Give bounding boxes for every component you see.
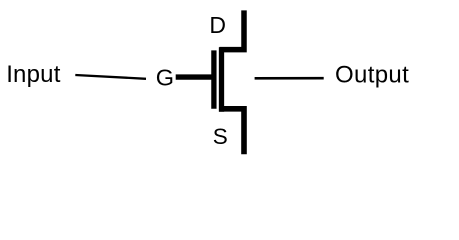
svg-text:Input: Input (6, 61, 61, 88)
transistor Q1 gate bar (211, 50, 216, 108)
transistor Q1 drain connection (220, 10, 245, 49)
transistor Q1 channel bar (219, 47, 224, 112)
transistor Q1 source connection (219, 109, 244, 154)
wire: output (255, 77, 324, 80)
svg-text:D: D (209, 12, 226, 38)
svg-text:Output: Output (335, 61, 409, 88)
wire: Input to gate (75, 75, 146, 79)
svg-text:G: G (156, 65, 174, 91)
svg-text:S: S (213, 124, 228, 149)
wire: gate lead (176, 74, 217, 79)
